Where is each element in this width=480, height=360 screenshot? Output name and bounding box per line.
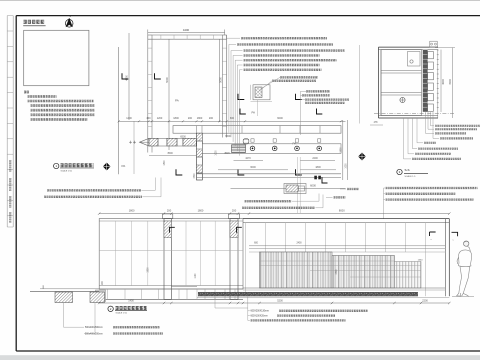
svg-text:400: 400 [146,117,151,120]
svg-text:1360: 1360 [418,259,424,261]
svg-text:6000: 6000 [310,184,316,188]
svg-text:6000: 6000 [250,166,256,169]
svg-text:600X200X130mm: 600X200X130mm [251,311,269,313]
svg-text:1800: 1800 [173,117,179,120]
svg-text:1800: 1800 [198,208,204,212]
svg-text:200: 200 [232,208,237,212]
svg-text:1100: 1100 [195,273,197,279]
svg-text:1800: 1800 [315,166,321,169]
svg-text:SCALE 1:50: SCALE 1:50 [116,312,128,315]
svg-text:500x400x500mm: 500x400x500mm [85,327,103,329]
svg-text:SCALE 1:50: SCALE 1:50 [61,169,73,172]
svg-text:4300: 4300 [126,75,129,81]
svg-text:1400: 1400 [128,300,134,303]
svg-text:3600: 3600 [442,79,445,85]
svg-text:PA: PA [175,99,179,103]
svg-text:6000: 6000 [277,117,283,120]
svg-text:SCALE 1:5: SCALE 1:5 [405,175,417,178]
svg-text:6500: 6500 [225,135,231,138]
svg-text:1500: 1500 [194,173,196,179]
svg-text:3500: 3500 [167,152,173,155]
svg-text:1800: 1800 [129,208,135,212]
svg-text:1000: 1000 [345,163,347,169]
svg-text:3500: 3500 [224,152,230,155]
svg-text:2200: 2200 [312,157,318,160]
svg-text:1500: 1500 [341,147,343,153]
svg-text:4500: 4500 [449,79,452,85]
svg-text:1800: 1800 [197,117,203,120]
svg-text:4400: 4400 [183,28,190,32]
svg-text:600: 600 [230,117,235,120]
svg-text:8000: 8000 [339,208,345,212]
svg-text:200: 200 [167,208,172,212]
svg-text:1400: 1400 [126,117,132,120]
svg-text:5000: 5000 [220,77,223,83]
svg-text:1500: 1500 [148,267,150,273]
svg-text:2200: 2200 [422,300,428,303]
svg-text:1800: 1800 [164,160,166,166]
svg-text:PA: PA [122,164,126,168]
svg-text:200: 200 [188,117,193,120]
svg-text:2400: 2400 [296,242,302,244]
svg-text:S-S: S-S [405,168,410,172]
svg-text:PA: PA [252,111,256,115]
svg-text:1000: 1000 [216,150,218,156]
svg-text:1200: 1200 [157,117,163,120]
svg-text:600X100X20mm: 600X100X20mm [251,315,268,317]
svg-text:200: 200 [209,117,214,120]
svg-text:5200: 5200 [277,300,283,303]
svg-text:1500: 1500 [336,269,338,275]
svg-text:5000: 5000 [166,77,169,83]
svg-text:4270: 4270 [245,157,251,160]
